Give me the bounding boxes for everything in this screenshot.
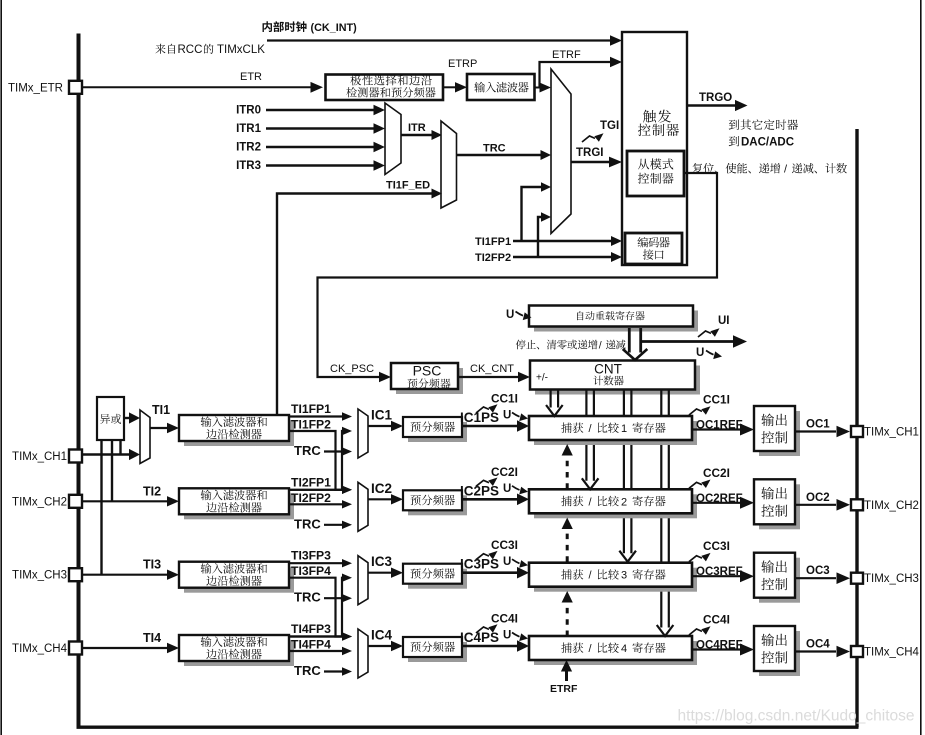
label from RCC TIMxCLK — [155, 44, 175, 54]
wire ETRF — [535, 87, 542, 89]
svg-text:TRC: TRC — [483, 143, 506, 155]
svg-text:U: U — [503, 630, 511, 642]
svg-text:TRGI: TRGI — [576, 147, 603, 159]
svg-text:TIMx_CH4: TIMx_CH4 — [864, 647, 920, 659]
box capture compare register 3 — [534, 568, 697, 592]
label to other timers — [729, 119, 798, 130]
mux IC2 select — [358, 482, 368, 531]
wire TI2FP2 to IC2 mux — [289, 503, 345, 505]
wire IC4 to prescaler — [368, 645, 393, 647]
box input filter edge detector 3 — [184, 567, 294, 593]
box input filter edge detector 1 — [184, 420, 294, 446]
wire TI3FP4 down to IC4 mux — [289, 578, 345, 637]
svg-text:TIMx_CH1: TIMx_CH1 — [864, 427, 919, 439]
pad TIMx_CH2 right — [851, 499, 863, 510]
box trigger controller — [622, 32, 687, 265]
label to DAC ADC — [729, 136, 739, 146]
wire OC3 to pad — [795, 577, 836, 579]
svg-text:CC4I: CC4I — [703, 613, 730, 627]
svg-text:TI3FP4: TI3FP4 — [291, 564, 331, 578]
label UI with squiggle — [698, 328, 720, 337]
box CNT counter — [535, 366, 700, 395]
wire IC2 to prescaler — [368, 498, 393, 500]
box polarity selection edge detector prescaler — [326, 75, 444, 101]
svg-text:CC2I: CC2I — [703, 466, 730, 480]
mux TI1 select — [140, 410, 150, 464]
svg-text:ETRF: ETRF — [552, 49, 581, 61]
label CC2I right with squiggle — [689, 480, 711, 489]
wire slave mode controller to CK_PSC — [318, 173, 718, 377]
wire TI4FP3 to IC4 mux — [289, 635, 345, 637]
pad TIMx_CH2 left — [69, 495, 82, 508]
wire ITR mux1 to mux2 — [401, 134, 433, 136]
box auto-reload register — [534, 311, 698, 332]
svg-text:TIMx_CH3: TIMx_CH3 — [864, 573, 919, 585]
wire TRC row 4 — [324, 670, 345, 672]
wire OC1REF — [692, 428, 740, 430]
wire CK_CNT — [458, 376, 520, 378]
svg-text:ITR1: ITR1 — [236, 123, 262, 135]
mux IC3 select — [358, 556, 368, 605]
svg-text:3: 3 — [621, 570, 627, 582]
pad TIMx_CH3 left — [69, 568, 82, 581]
box encoder interface — [625, 233, 682, 264]
label stop clear updown — [516, 340, 598, 350]
box capture compare register 1 — [534, 421, 697, 445]
wire TI2FP1 up to IC1 mux — [289, 431, 345, 490]
box capture compare register 2 — [534, 494, 697, 518]
wire TI1 mux to filter — [150, 427, 169, 429]
wire ETRF to capture register 4 — [565, 668, 568, 681]
svg-text:ITR2: ITR2 — [236, 142, 261, 154]
svg-text:CC1I: CC1I — [703, 393, 730, 407]
wire IC3PS to capture register — [462, 571, 518, 574]
wire CH1 to TI1 mux — [82, 453, 130, 455]
svg-text:1: 1 — [621, 423, 627, 435]
svg-text:/: / — [599, 340, 602, 352]
label CC1I right with squiggle — [689, 406, 711, 415]
svg-text:CK_CNT: CK_CNT — [470, 363, 514, 375]
wire OC4 to pad — [795, 650, 836, 652]
wire TRC row 2 — [324, 524, 345, 526]
svg-text:ETR: ETR — [240, 71, 262, 83]
svg-text:DAC/ADC: DAC/ADC — [741, 137, 794, 149]
svg-text:TIMx_CH4: TIMx_CH4 — [12, 643, 68, 655]
svg-text:CC2I: CC2I — [491, 465, 518, 479]
label CC2I left with squiggle — [476, 478, 498, 487]
svg-text:TI2FP2: TI2FP2 — [475, 252, 511, 264]
pad TIMx_CH3 right — [851, 573, 863, 584]
box input filter edge detector 4 — [184, 640, 294, 666]
svg-text:TI3: TI3 — [143, 558, 161, 572]
box capture compare register 4 — [534, 641, 697, 665]
svg-text:TI4FP4: TI4FP4 — [291, 638, 331, 652]
dashed arrows between capture registers — [566, 454, 569, 489]
svg-text:ETRP: ETRP — [448, 58, 477, 70]
wire TI4 — [82, 647, 169, 649]
svg-text:CC1I: CC1I — [491, 392, 518, 406]
svg-text:TRGO: TRGO — [699, 92, 732, 104]
box prescaler 4 — [408, 642, 467, 662]
wire U event to right — [641, 340, 733, 343]
page edge line right — [920, 0, 922, 735]
svg-text:TI2: TI2 — [143, 484, 161, 498]
svg-text:TIMx_CH2: TIMx_CH2 — [864, 500, 919, 512]
wire TI1FP2 down to IC2 mux — [289, 431, 345, 490]
wire IC4PS to capture register — [462, 645, 518, 648]
svg-text:IC4: IC4 — [371, 628, 393, 643]
svg-text:(CK_INT): (CK_INT) — [311, 22, 358, 34]
wire TI4FP3 up to IC3 mux — [289, 578, 345, 637]
wire TI1FP1 to encoder and trigger mux — [513, 240, 613, 242]
svg-text:TI4: TI4 — [143, 631, 161, 645]
pad TIMx_CH1 right — [851, 426, 863, 437]
box input filter edge detector 2 — [184, 493, 294, 519]
XOR input stubs from CH1 CH2 CH3 — [119, 440, 121, 455]
wire TI2FP1 to IC2 mux — [289, 489, 345, 491]
svg-text:U: U — [503, 410, 511, 422]
wire TRC row 3 — [324, 597, 345, 599]
svg-text:IC1: IC1 — [371, 408, 393, 423]
wire OC1 to pad — [795, 430, 836, 432]
wire IC2PS to capture register — [462, 498, 518, 501]
svg-text:TRC: TRC — [294, 663, 321, 678]
svg-text:CK_PSC: CK_PSC — [330, 363, 374, 375]
wire TI3 — [82, 574, 169, 576]
svg-text:CNT: CNT — [594, 362, 622, 377]
wire OC2 to pad — [795, 504, 836, 506]
svg-text:CC3I: CC3I — [491, 538, 518, 552]
svg-text:TI1F_ED: TI1F_ED — [386, 180, 430, 192]
wire TI2FP2 to encoder and trigger mux — [513, 256, 613, 258]
svg-text:TRC: TRC — [294, 443, 321, 458]
outer border frame — [77, 34, 81, 728]
wire TI1F_ED — [277, 194, 433, 416]
wire polarity box to input filter — [443, 86, 457, 88]
svg-text:ITR3: ITR3 — [236, 160, 261, 172]
wire OC2REF — [692, 502, 740, 504]
svg-text:RCC: RCC — [178, 44, 203, 56]
svg-text:TIMx_CH1: TIMx_CH1 — [12, 451, 67, 463]
wire OC3REF — [692, 575, 740, 577]
wire TRC to trigger mux — [457, 154, 542, 156]
svg-text:IC1PS: IC1PS — [460, 410, 499, 425]
label internal clock CK_INT — [263, 21, 307, 32]
svg-text:TIMxCLK: TIMxCLK — [217, 44, 265, 56]
page edge line left — [0, 0, 2, 735]
svg-text:CC3I: CC3I — [703, 539, 730, 553]
svg-text:U: U — [503, 556, 511, 568]
svg-text:U: U — [696, 347, 704, 359]
wire OC4REF — [692, 648, 740, 650]
box output control 4 — [759, 631, 800, 676]
svg-text:+/-: +/- — [536, 373, 548, 384]
svg-text:PSC: PSC — [413, 363, 442, 379]
mux trigger select — [551, 69, 571, 234]
mux ITR select — [385, 103, 401, 175]
svg-text:TI1FP2: TI1FP2 — [291, 418, 331, 432]
svg-text:UI: UI — [718, 315, 730, 327]
box PSC prescaler — [396, 368, 463, 394]
svg-text:TIMx_CH3: TIMx_CH3 — [12, 570, 67, 582]
svg-text:IC4PS: IC4PS — [460, 630, 499, 645]
double arrow ARR to CNT — [628, 328, 631, 353]
svg-text:OC4: OC4 — [806, 639, 830, 651]
box slave mode controller — [627, 151, 684, 196]
wire TI1FP1 to IC1 mux — [289, 415, 345, 417]
wire ETR — [82, 86, 313, 88]
svg-text:OC1: OC1 — [806, 419, 830, 431]
wire TRC row 1 — [324, 450, 345, 452]
svg-text:IC3PS: IC3PS — [460, 557, 499, 572]
pad TIMx_CH4 right — [851, 646, 863, 657]
pad TIMx_CH1 left — [69, 450, 82, 463]
svg-text:U: U — [503, 483, 511, 495]
box prescaler 3 — [408, 569, 467, 589]
wire TRGO output — [687, 104, 736, 106]
wire IC1PS to capture register — [462, 425, 518, 428]
box input filter ETR — [467, 74, 535, 100]
svg-text:TI1: TI1 — [152, 403, 170, 417]
wire TRGI — [571, 161, 610, 163]
label reset enable up down count — [693, 163, 781, 174]
wire CK_INT to trigger controller — [267, 39, 612, 41]
svg-text:U: U — [506, 309, 514, 321]
svg-text:/: / — [784, 164, 788, 176]
svg-text:TIMx_CH2: TIMx_CH2 — [12, 496, 67, 508]
svg-text:TRC: TRC — [294, 516, 321, 531]
box output control 2 — [759, 484, 800, 529]
box output control 3 — [759, 558, 800, 603]
svg-text:TI1FP1: TI1FP1 — [475, 236, 511, 248]
wire IC3 to prescaler — [368, 572, 393, 574]
box output control 1 — [759, 411, 800, 456]
label CC4I right with squiggle — [689, 626, 711, 635]
wire XOR to TI1 mux — [124, 417, 130, 419]
svg-text:IC3: IC3 — [371, 554, 393, 569]
double arrow heads CNT to capture registers — [546, 405, 563, 416]
wire TI2 — [82, 500, 169, 502]
pad TIMx_CH4 left — [69, 642, 82, 655]
svg-text:OC2: OC2 — [806, 492, 830, 504]
svg-text:IC2: IC2 — [371, 481, 392, 496]
svg-text:IC2PS: IC2PS — [460, 483, 499, 498]
svg-text:TI3FP3: TI3FP3 — [291, 549, 331, 563]
svg-text:TIMx_ETR: TIMx_ETR — [8, 83, 63, 95]
svg-text:4: 4 — [621, 643, 627, 655]
svg-text:https://blog.csdn.net/Kudo_chi: https://blog.csdn.net/Kudo_chitose — [678, 708, 915, 725]
svg-text:TI4FP3: TI4FP3 — [291, 622, 331, 636]
box prescaler 2 — [408, 495, 467, 515]
label CC4I left with squiggle — [476, 624, 498, 633]
XOR box — [97, 397, 124, 440]
mux IC4 select — [358, 629, 368, 678]
svg-text:CC4I: CC4I — [491, 612, 518, 626]
svg-text:TGI: TGI — [600, 120, 619, 132]
svg-text:TI1FP1: TI1FP1 — [291, 402, 331, 416]
wire TI4FP4 to IC4 mux — [289, 650, 345, 652]
svg-text:OC3: OC3 — [806, 565, 830, 577]
mux TRC select — [441, 121, 457, 208]
pad TIMx_ETR — [69, 81, 82, 94]
label CC3I right with squiggle — [689, 553, 711, 562]
svg-text:TI2FP2: TI2FP2 — [291, 491, 331, 505]
svg-text:TI2FP1: TI2FP1 — [291, 475, 331, 489]
svg-text:TRC: TRC — [294, 590, 321, 605]
svg-text:ITR0: ITR0 — [236, 105, 261, 117]
label CC1I left with squiggle — [476, 404, 498, 413]
label CC3I left with squiggle — [476, 551, 498, 560]
wire TI3FP3 to IC3 mux — [289, 562, 345, 564]
wire IC1 to prescaler — [368, 425, 393, 427]
label TGI with interrupt squiggle — [582, 133, 604, 142]
mux IC1 select — [358, 409, 368, 458]
double arrow lines CNT to capture registers — [549, 389, 551, 408]
svg-text:ETRF: ETRF — [550, 683, 578, 695]
svg-text:2: 2 — [621, 496, 627, 508]
svg-text:ITR: ITR — [408, 122, 426, 134]
box prescaler 1 — [408, 422, 467, 442]
